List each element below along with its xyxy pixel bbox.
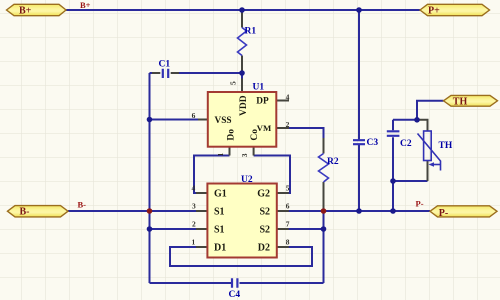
svg-text:4: 4 [286,93,290,102]
svg-text:7: 7 [286,220,290,229]
svg-text:5: 5 [286,184,290,193]
svg-text:C4: C4 [229,290,241,300]
svg-text:C2: C2 [400,139,412,149]
svg-text:D2: D2 [258,243,270,254]
svg-text:S2: S2 [259,225,270,236]
svg-text:Do: Do [227,129,237,141]
svg-text:8: 8 [286,238,290,247]
svg-text:S1: S1 [214,225,225,236]
svg-text:DP: DP [256,97,269,107]
svg-text:3: 3 [192,202,196,211]
svg-text:U2: U2 [241,175,253,185]
svg-text:G2: G2 [257,189,270,200]
svg-text:1: 1 [192,238,196,247]
svg-text:2: 2 [192,220,196,229]
svg-text:P+: P+ [428,6,440,17]
svg-text:B+: B+ [80,0,91,10]
svg-text:S2: S2 [259,207,270,218]
svg-text:2: 2 [286,120,290,129]
svg-text:G1: G1 [214,189,227,200]
svg-text:5: 5 [228,81,237,85]
svg-text:4: 4 [192,184,196,193]
svg-text:R2: R2 [327,157,339,167]
svg-text:U1: U1 [253,83,265,93]
svg-text:TH: TH [439,141,453,151]
svg-text:B+: B+ [19,6,32,17]
svg-text:C1: C1 [159,60,171,70]
svg-text:R1: R1 [245,27,257,37]
svg-text:1: 1 [216,153,225,157]
svg-text:VSS: VSS [215,116,232,126]
svg-text:C3: C3 [367,138,379,148]
svg-text:S1: S1 [214,207,225,218]
svg-text:VDD: VDD [239,95,249,116]
svg-text:P-: P- [416,199,424,209]
svg-text:3: 3 [240,153,249,157]
svg-text:B-: B- [20,207,30,218]
svg-text:B-: B- [78,200,87,210]
svg-text:P-: P- [439,208,448,219]
svg-text:6: 6 [192,111,196,120]
svg-text:D1: D1 [214,243,226,254]
svg-text:6: 6 [286,202,290,211]
svg-text:TH: TH [453,96,468,107]
svg-text:Co: Co [250,129,260,141]
